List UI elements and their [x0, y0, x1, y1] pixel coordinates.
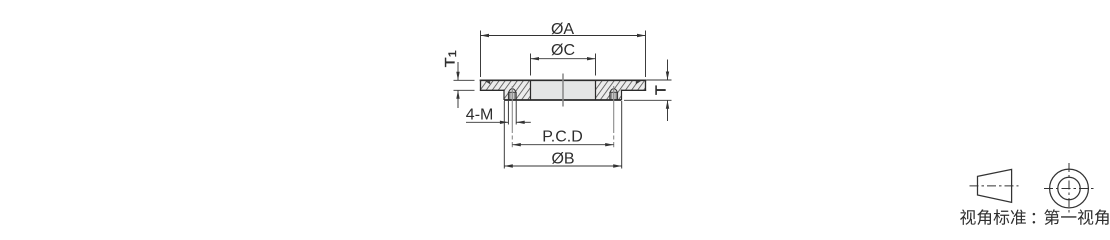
first-angle projection cone symbol [978, 169, 1012, 202]
chamfer wedge mark right [636, 81, 641, 84]
flange outline [480, 80, 647, 100]
svg-text:ØC: ØC [551, 42, 575, 59]
svg-text:ØB: ØB [551, 151, 574, 168]
dim T extension line bottom [624, 99, 672, 101]
dim C extension line right [595, 54, 597, 76]
dim B dimension line [504, 165, 621, 167]
4-M arrowhead left [500, 121, 509, 124]
4-M leader line [466, 121, 508, 123]
dim B arrowhead right [613, 164, 622, 167]
svg-text:ØA: ØA [551, 21, 574, 38]
dim T1 arrow stem bottom [457, 91, 459, 108]
svg-text:4-M: 4-M [466, 107, 494, 124]
cone symbol centerline [970, 185, 1019, 187]
dim T arrowhead top [666, 72, 669, 81]
dim A arrowhead right [637, 34, 646, 37]
svg-text:P.C.D: P.C.D [542, 128, 583, 145]
projection symbol outer circle [1050, 169, 1089, 208]
hub bore section (diameter C) [531, 80, 596, 100]
dim T1 extension line top [454, 79, 475, 81]
dim A extension line right [645, 31, 647, 78]
dim A extension line left [480, 31, 482, 78]
caption text: view standard - first angle projection [960, 209, 1108, 225]
flange body left cross-section (hatched) [481, 80, 531, 100]
rim underside right [621, 89, 646, 91]
flange body right cross-section (hatched) [596, 80, 646, 100]
dim T1 extension line bottom [454, 89, 475, 91]
rim underside left [480, 89, 505, 91]
thread centerline left [511, 86, 513, 147]
dim C extension line left [530, 54, 532, 76]
dim B extension line left [503, 101, 505, 169]
dim A arrowhead left [481, 34, 490, 37]
dim B arrowhead left [504, 164, 513, 167]
tapped hole extension line left [507, 101, 509, 125]
dim PCD dimension line [512, 144, 613, 146]
svg-text:T1: T1 [444, 50, 459, 67]
dim C arrowhead left [531, 57, 540, 60]
circle crosshair horizontal [1044, 188, 1095, 190]
dim T arrowhead bottom [666, 100, 669, 109]
bottom face edge (recessed) [504, 99, 622, 101]
tapped hole right (4-M thread) [610, 89, 618, 100]
dim PCD arrowhead left [512, 143, 521, 146]
dim T1 arrow stem top [457, 62, 459, 80]
dim T extension line top [647, 79, 672, 81]
hub bore wall left [530, 80, 532, 100]
tapped hole extension line right [515, 101, 517, 125]
chamfer wedge mark left [485, 81, 490, 84]
main centerline [562, 74, 564, 107]
tapped hole left (4-M thread) [508, 89, 516, 100]
dim PCD arrowhead right [605, 143, 614, 146]
dim T arrow stem top [667, 60, 669, 80]
projection symbol inner circle [1058, 177, 1080, 199]
dim T arrow stem bottom [667, 101, 669, 121]
thread centerline right [613, 86, 615, 147]
step edge right (diameter B shoulder) [621, 90, 623, 100]
dim A dimension line [481, 35, 646, 37]
svg-text:T: T [653, 85, 669, 95]
4-M arrowhead right [516, 121, 525, 124]
top face edge [480, 79, 647, 81]
hub bore wall right [595, 80, 597, 100]
dim T1 arrowhead top [456, 72, 459, 81]
outer edge right [645, 80, 647, 91]
circle crosshair vertical [1068, 163, 1070, 214]
step edge left (diameter B shoulder) [503, 90, 505, 100]
dim T1 arrowhead bottom [456, 90, 459, 99]
dim C dimension line [531, 58, 596, 60]
dim B extension line right [621, 101, 623, 169]
outer edge left [480, 80, 482, 91]
4-M right arrow tail [516, 121, 531, 123]
dim C arrowhead right [587, 57, 596, 60]
